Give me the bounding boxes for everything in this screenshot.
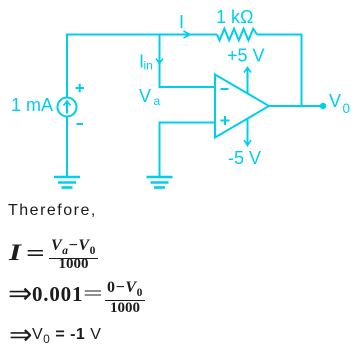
svg-text:a: a	[154, 94, 161, 108]
ground symbol G1	[54, 177, 80, 188]
node V0 dot	[320, 103, 326, 109]
svg-text:in: in	[144, 59, 153, 73]
wire: op-amp output	[269, 105, 323, 107]
current source arrow	[66, 102, 68, 114]
svg-text:1 kΩ: 1 kΩ	[216, 7, 253, 27]
op-amp plus input mark	[221, 120, 230, 122]
wire: non-inverting input branch	[160, 123, 216, 177]
svg-text:V: V	[329, 91, 341, 111]
wire: resistor right lead to feedback corner down to output	[257, 35, 302, 107]
svg-text:1 mA: 1 mA	[11, 95, 53, 115]
wire: current source bottom to ground	[66, 117, 68, 177]
resistor R1 1kΩ zigzag	[217, 29, 257, 41]
current source minus mark	[77, 123, 84, 125]
svg-text:V: V	[139, 86, 151, 106]
text: Therefore,	[8, 202, 97, 220]
svg-text:I: I	[179, 12, 184, 32]
equation: I = (Va - V0)/1000	[9, 240, 21, 266]
current arrow I on top wire	[184, 31, 191, 38]
op-amp minus input mark	[221, 88, 229, 90]
current source plus mark	[76, 84, 230, 125]
ground symbol G2	[147, 177, 173, 188]
wire: inverting input branch	[160, 35, 216, 88]
op-amp U1 triangle	[215, 75, 269, 138]
svg-text:+5 V: +5 V	[227, 46, 265, 66]
equation: 0.001 = (0 - V0)/1000	[8, 276, 32, 311]
op-amp supply -5V arrow	[247, 119, 249, 145]
current source I1 circle	[58, 98, 77, 117]
op-amp supply +5V arrow	[247, 68, 249, 93]
equation: V0 = -1 V	[9, 318, 32, 351]
svg-text:0: 0	[343, 101, 351, 116]
wire: current source top to top rail	[67, 35, 217, 99]
svg-text:-5 V: -5 V	[228, 148, 261, 168]
current arrow Iin on inverting branch	[156, 59, 163, 64]
